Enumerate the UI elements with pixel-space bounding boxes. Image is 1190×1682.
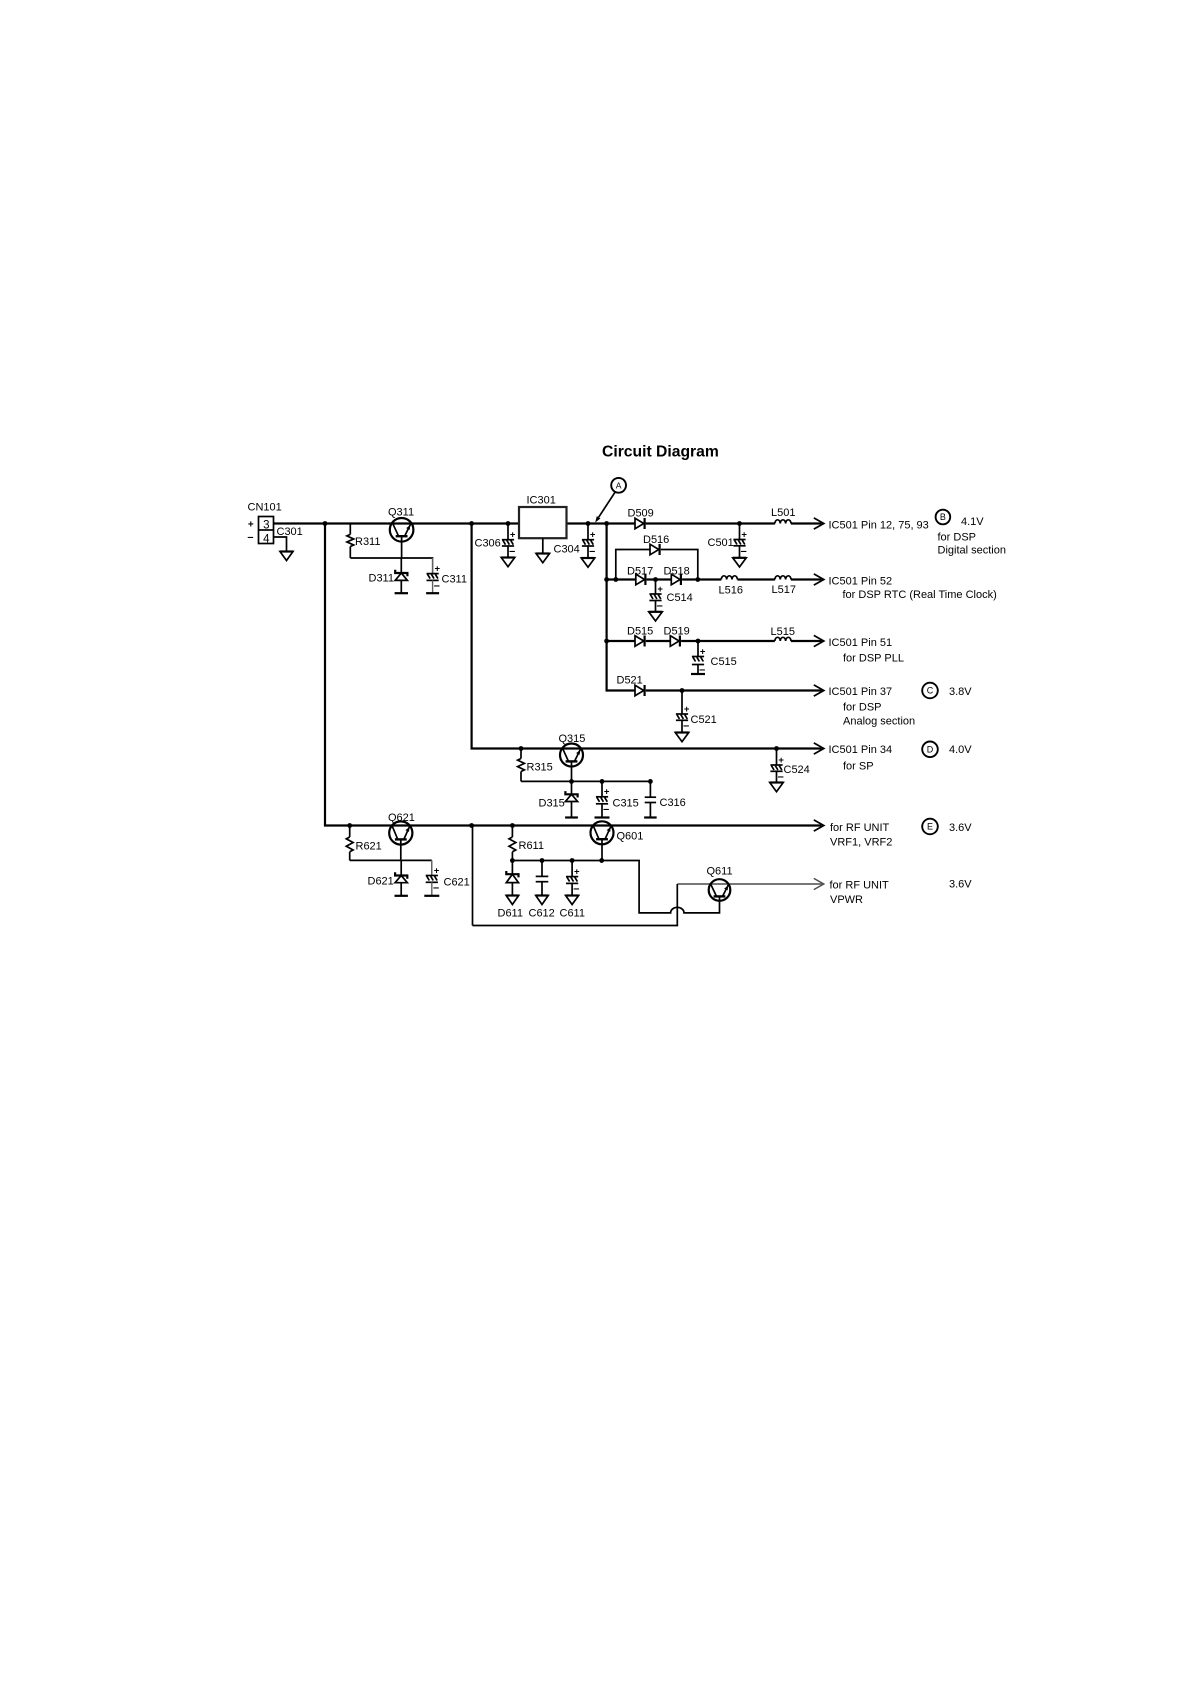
svg-text:+: + [435,563,441,574]
rail end bar below D311 [395,592,408,594]
svg-text:D515: D515 [627,626,653,638]
svg-text:+: + [590,530,596,541]
svg-text:L515: L515 [771,626,795,638]
ground below C612 [536,896,549,905]
diode D519 [670,636,680,647]
label D519 [664,626,690,638]
svg-text:L501: L501 [771,507,795,519]
svg-text:D521: D521 [617,675,643,687]
label C514 [667,592,693,604]
svg-text:for DSP PLL: for DSP PLL [843,652,904,664]
svg-text:Q611: Q611 [707,866,733,878]
svg-text:Q315: Q315 [559,733,586,745]
text IC501 Pin 51 [829,637,893,649]
svg-text:–: – [433,882,439,894]
svg-text:IC501 Pin 52: IC501 Pin 52 [829,575,893,587]
svg-text:R315: R315 [527,762,553,774]
capacitor C621 (electrolytic) [426,860,440,895]
wire Q621 base row (y=860.4) [350,839,432,860]
svg-text:VRF1, VRF2: VRF1, VRF2 [830,837,892,849]
text Digital section [938,545,1006,557]
ground below C501 [733,558,747,567]
capacitor C311 (electrolytic) [427,558,441,593]
ground below CN101 [280,552,293,561]
svg-text:VPWR: VPWR [830,894,863,906]
svg-text:B: B [940,512,946,522]
svg-text:Q621: Q621 [388,812,415,824]
svg-text:4.1V: 4.1V [961,516,984,528]
svg-text:C311: C311 [442,574,467,586]
svg-text:C612: C612 [529,908,555,920]
label L516 [719,585,743,597]
label Q311 [388,507,414,519]
svg-text:C: C [927,686,934,696]
arrow to IC501 Pin 52 [814,574,824,585]
rail end bar below C316 [644,816,657,818]
text for DSP (C) [843,702,882,714]
svg-text:L516: L516 [719,585,743,597]
svg-text:+: + [248,520,254,531]
svg-text:D509: D509 [628,508,654,520]
label C301 [277,526,303,538]
text VPWR [830,894,863,906]
label C306 [475,538,501,550]
svg-text:C316: C316 [660,797,686,809]
node B circle [936,510,951,525]
svg-text:E: E [927,822,933,832]
transistor Q621 [389,821,412,844]
label C612 [529,908,555,920]
text IC501 Pin 52 [829,575,893,587]
connector plus mark [248,520,254,531]
connector minus mark [247,532,253,544]
text 3.8V [949,686,972,698]
label D621 [368,876,394,888]
text IC501 Pin 37 [829,686,893,698]
wire CN101 pin4 to ground [274,537,287,552]
diode D515 [635,636,645,647]
label C304 [554,544,580,556]
wire IC301 ground stem [542,538,544,553]
wire vertical bus x=471.6 down to row D rail to arrow [472,524,822,749]
capacitor C521 (electrolytic) [676,691,690,733]
junction dots row B [323,521,742,526]
svg-text:C315: C315 [613,798,639,810]
svg-text:+: + [741,529,747,540]
capacitor C316 [645,781,656,817]
rail end bar below C515 [691,673,705,675]
svg-text:D517: D517 [627,566,653,578]
label D315 [539,798,565,810]
text for SP [843,761,874,773]
svg-text:4.0V: 4.0V [949,744,972,756]
ground below D611 [506,896,519,905]
junction dots Pin34 row [519,746,779,751]
svg-text:C521: C521 [691,714,717,726]
resistor R621 [346,826,353,861]
svg-text:IC501 Pin 51: IC501 Pin 51 [829,637,893,649]
arrow to RF UNIT VPWR [814,878,824,889]
connector CN101 label [248,502,282,514]
label Q611 [707,866,733,878]
junction dot Pin37 row [680,688,685,693]
svg-text:–: – [741,545,747,557]
wire R611 bottom row to Q601 base and Q611 base with hop [512,861,719,913]
arrow to IC501 Pin 37 [814,685,824,696]
svg-text:for DSP RTC (Real Time Clock): for DSP RTC (Real Time Clock) [843,589,997,601]
svg-text:+: + [657,584,663,595]
inductor L501 [775,520,791,524]
label Q315 [559,733,586,745]
junction dots Pin51 row [604,639,700,644]
diode D517 [636,574,646,585]
label D521 [617,675,643,687]
inductor L515 [775,637,791,641]
svg-text:D: D [927,745,934,755]
title [602,444,719,461]
text for RF UNIT (VPWR) [830,880,890,892]
transistor Q315 [560,744,583,767]
svg-text:Q601: Q601 [617,831,644,843]
resistor R611 [509,826,516,861]
node A pointer arrow [595,492,615,523]
zener diode D311 [395,558,407,593]
capacitor C501 (electrolytic) [733,524,747,558]
ground below C524 [770,783,784,792]
rail end bar below C311 [426,592,439,594]
label D311 [369,573,394,585]
transistor Q601 [591,821,614,844]
ground below IC301 [536,554,550,563]
diode D518 [671,574,681,585]
ground below C306 [501,558,515,567]
inductor L517 [775,576,791,580]
label C501 [708,537,734,549]
svg-text:L517: L517 [772,584,796,596]
svg-text:+: + [574,866,580,877]
wire row Pin52 (y=579.5) [607,578,822,580]
label D509 [628,508,654,520]
wire D516 loop rectangle [616,550,698,580]
node D circle [922,742,938,758]
capacitor C514 (electrolytic) [649,580,663,613]
rail end bar below D315 [565,816,578,818]
text 4.0V [949,744,972,756]
label L501 [771,507,795,519]
label D515 [627,626,653,638]
node A circle [611,478,626,493]
svg-text:D518: D518 [664,566,690,578]
svg-text:IC301: IC301 [527,495,556,507]
wire vertical bus x=606.6 with row C rail [607,524,822,691]
label D516 [643,534,669,546]
wire row Pin51 (y=641) [607,640,822,642]
svg-text:+: + [434,865,440,876]
transistor Q611 [709,879,731,901]
rail end bar below C621 [424,895,439,897]
text IC501 Pin 34 [829,744,893,756]
svg-text:3.6V: 3.6V [949,822,972,834]
svg-text:IC501 Pin 37: IC501 Pin 37 [829,686,893,698]
ground below C521 [675,733,689,742]
svg-text:IC501 Pin 34: IC501 Pin 34 [829,744,893,756]
inductor L516 [721,576,737,580]
svg-text:for DSP: for DSP [938,531,977,543]
svg-text:–: – [573,883,579,895]
svg-text:D611: D611 [498,908,523,920]
label C315 [613,798,639,810]
label L515 [771,626,795,638]
text for RF UNIT (E) [830,822,890,834]
svg-text:Digital section: Digital section [938,545,1006,557]
svg-text:C501: C501 [708,537,734,549]
wire Q315 base row (y=781.4) [521,761,650,781]
ground below C514 [649,612,663,621]
zener diode D315 [565,781,577,817]
svg-text:–: – [603,803,609,815]
svg-text:C514: C514 [667,592,693,604]
text IC501 Pin 12, 75, 93 [829,519,929,531]
wire row VPWR from Q611 to arrow (y=884) [677,883,822,885]
wire vertical bus x=325 and row E rail to arrow [325,524,822,826]
svg-text:C611: C611 [560,908,585,920]
label C521 [691,714,717,726]
svg-text:–: – [247,532,253,544]
capacitor C612 [536,861,549,896]
text for DSP (B) [938,531,977,543]
svg-text:for SP: for SP [843,761,874,773]
arrow to IC501 Pin 34 [814,743,824,754]
arrow to IC501 Pin 12 [814,518,824,529]
svg-text:C304: C304 [554,544,580,556]
label D611 [498,908,523,920]
label C515 [711,656,737,668]
capacitor C515 (electrolytic) [692,641,706,676]
wire Q611 left return path down-left [473,884,678,926]
capacitor C611 (electrolytic) [566,861,580,896]
node C circle [922,683,938,699]
svg-text:–: – [589,546,595,558]
diode D509 [635,518,645,529]
text for DSP PLL [843,652,904,664]
label R311 [355,536,380,548]
wire C311 stem [432,558,434,574]
wire Q311 base row (y=558) [350,536,432,558]
label C524 [784,764,810,776]
svg-text:3: 3 [263,520,269,532]
junction dots row E [347,823,515,828]
junction dots base row Q315 [569,779,653,784]
label IC301 [527,495,556,507]
zener diode D621 [395,860,407,895]
capacitor C304 (electrolytic) [582,524,596,559]
svg-text:–: – [509,546,515,558]
svg-text:+: + [604,787,610,798]
regulator IC301 box [519,507,567,538]
junction dots R611 row [510,858,604,863]
rail end bar below D621 [395,895,408,897]
svg-text:IC501 Pin 12, 75, 93: IC501 Pin 12, 75, 93 [829,519,929,531]
svg-text:–: – [434,580,440,592]
svg-text:Q311: Q311 [388,507,414,519]
svg-text:C621: C621 [444,877,470,889]
label C611 [560,908,585,920]
rail end bar below C315 [595,816,610,818]
svg-text:R311: R311 [355,536,380,548]
text VRF1, VRF2 [830,837,892,849]
node E circle [922,819,938,835]
zener diode D611 [506,861,518,896]
svg-text:D621: D621 [368,876,394,888]
label C316 [660,797,686,809]
label C621 [444,877,470,889]
text for DSP RTC [843,589,997,601]
wire vertical x=472.5 from row E down to bottom return [472,826,474,926]
resistor R311 [347,524,354,559]
svg-text:Circuit Diagram: Circuit Diagram [602,444,719,461]
capacitor C306 (electrolytic) [502,524,516,558]
wire C621 stem [431,860,433,875]
svg-text:C524: C524 [784,764,810,776]
svg-text:for RF UNIT: for RF UNIT [830,822,890,834]
transistor Q311 [390,518,414,542]
svg-text:+: + [700,646,706,657]
svg-text:–: – [683,720,689,732]
capacitor C315 (electrolytic) [596,781,610,817]
svg-text:D516: D516 [643,534,669,546]
label R611 [519,840,544,852]
svg-text:R621: R621 [356,841,382,853]
junction dots Pin52 row [604,577,700,582]
label L517 [772,584,796,596]
svg-text:–: – [657,600,663,612]
capacitor C524 (electrolytic) [770,749,784,783]
svg-text:4: 4 [263,533,270,545]
text Analog section [843,715,915,727]
text 3.6V (VPWR) [949,879,972,891]
svg-text:3.6V: 3.6V [949,879,972,891]
label Q621 [388,812,415,824]
arrow to RF UNIT VRF [814,820,824,831]
svg-text:Analog section: Analog section [843,715,915,727]
svg-text:for DSP: for DSP [843,702,882,714]
svg-text:C515: C515 [711,656,737,668]
svg-text:D519: D519 [664,626,690,638]
ground below C304 [581,558,595,567]
label C311 [442,574,467,586]
svg-text:R611: R611 [519,840,544,852]
ground below C611 [566,896,579,905]
arrow to IC501 Pin 51 [814,635,824,646]
svg-text:3.8V: 3.8V [949,686,972,698]
label D517 [627,566,653,578]
label D518 [664,566,690,578]
svg-text:+: + [684,704,690,715]
svg-text:+: + [510,530,516,541]
label R621 [356,841,382,853]
diode D516 [650,544,660,555]
resistor R315 [518,749,525,782]
label R315 [527,762,553,774]
text 3.6V (E) [949,822,972,834]
svg-text:for RF UNIT: for RF UNIT [830,880,890,892]
svg-text:CN101: CN101 [248,502,282,514]
text 4.1V [961,516,984,528]
svg-text:D311: D311 [369,573,394,585]
diode D521 [635,685,645,696]
svg-text:A: A [616,481,622,491]
connector CN101 body with pins 3 and 4 [259,517,274,546]
wire Q601 base stem [601,839,603,860]
svg-text:D315: D315 [539,798,565,810]
wire main rail row B (y=523.5) from CN101 pin3 to arrow [274,522,822,524]
svg-text:C306: C306 [475,538,501,550]
label Q601 [617,831,644,843]
